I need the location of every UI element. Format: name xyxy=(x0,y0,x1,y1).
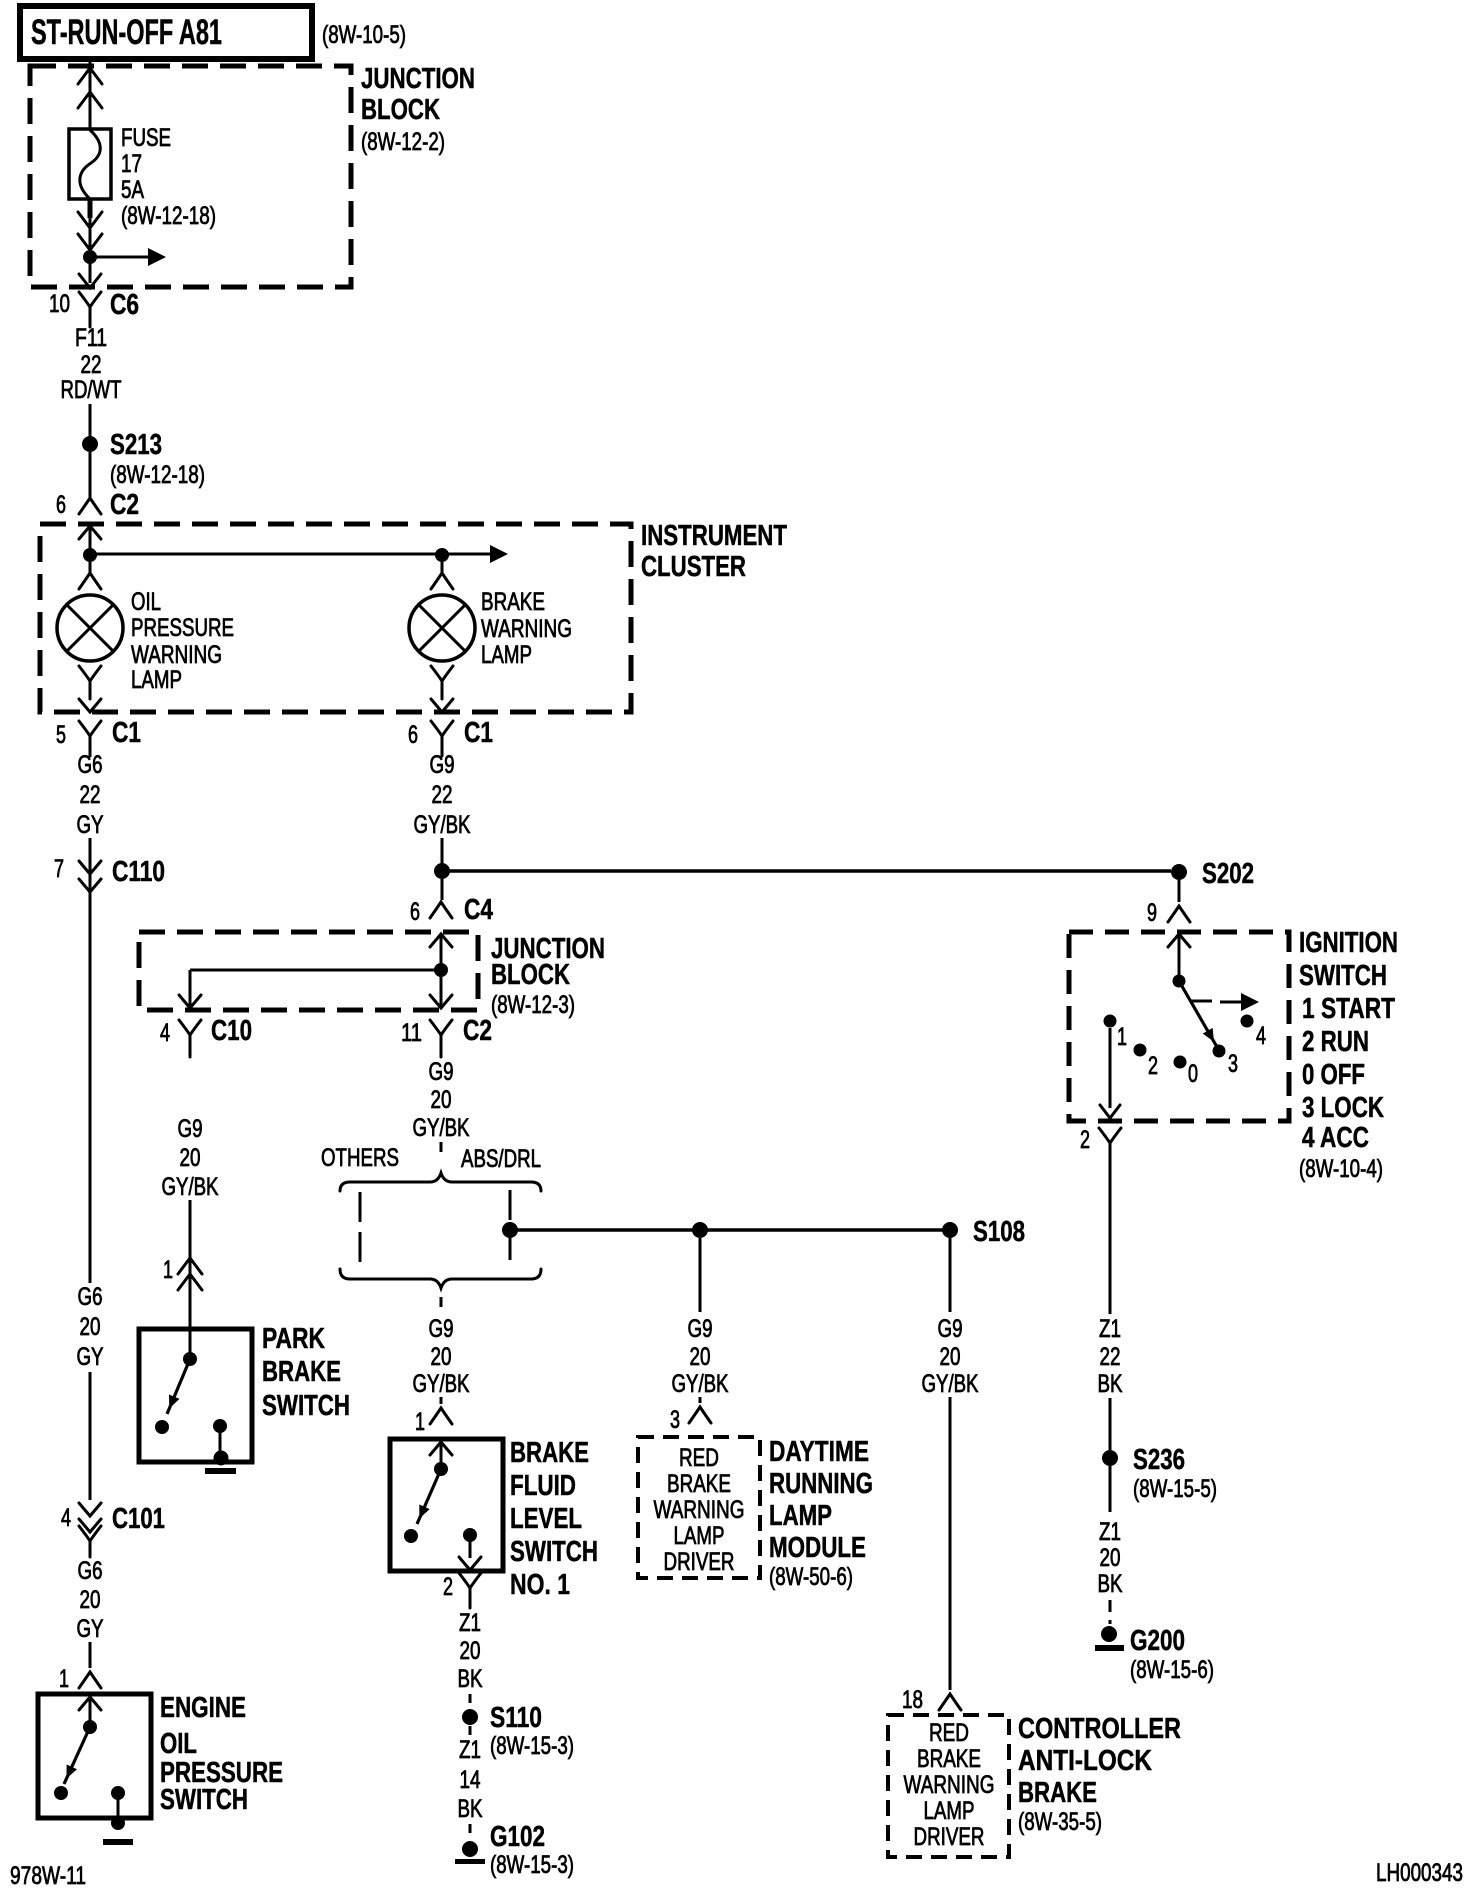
svg-text:S202: S202 xyxy=(1202,858,1254,890)
svg-text:BRAKE: BRAKE xyxy=(917,1745,981,1773)
wire label G9 20 GY/BK (ABS) xyxy=(922,1315,979,1398)
entry arrowhead xyxy=(430,1442,452,1466)
svg-text:C2: C2 xyxy=(463,1015,492,1047)
wire label G9 20 GY/BK (fluid) xyxy=(413,1315,470,1398)
label BRAKE WARNING LAMP xyxy=(481,588,572,669)
svg-text:7: 7 xyxy=(54,855,64,883)
svg-text:20: 20 xyxy=(80,1313,101,1341)
svg-text:20: 20 xyxy=(460,1637,481,1665)
wire label G9 20 GY/BK (DRL) xyxy=(672,1315,729,1398)
pin 6 xyxy=(408,721,418,749)
svg-text:BK: BK xyxy=(458,1795,483,1823)
ignition switch outline xyxy=(1069,932,1289,1121)
svg-text:4: 4 xyxy=(1256,1022,1266,1050)
connector into DRL module xyxy=(689,1407,711,1423)
svg-text:BRAKE: BRAKE xyxy=(262,1356,341,1388)
connector below switch xyxy=(459,1573,481,1608)
svg-text:5A: 5A xyxy=(121,176,144,204)
svg-text:(8W-15-3): (8W-15-3) xyxy=(490,1732,574,1760)
switch pivot xyxy=(183,1352,197,1366)
label BRAKE FLUID LEVEL SWITCH NO. 1 xyxy=(510,1437,598,1601)
lamp lower terminal xyxy=(79,666,101,699)
svg-text:BK: BK xyxy=(1098,1570,1123,1598)
contact 4 xyxy=(1241,1015,1267,1051)
svg-text:20: 20 xyxy=(690,1343,711,1371)
pin 11 xyxy=(401,1019,422,1047)
wire from A81 into junction block xyxy=(89,59,92,129)
svg-text:G9: G9 xyxy=(178,1115,203,1143)
svg-text:4: 4 xyxy=(61,1504,71,1532)
connector C4 xyxy=(430,894,493,926)
svg-text:4 ACC: 4 ACC xyxy=(1302,1122,1369,1154)
svg-text:2: 2 xyxy=(443,1573,453,1601)
svg-text:10: 10 xyxy=(49,290,70,318)
svg-text:PRESSURE: PRESSURE xyxy=(131,614,234,642)
svg-text:F11: F11 xyxy=(75,324,107,352)
switch lever xyxy=(417,1469,441,1524)
label DAYTIME RUNNING LAMP MODULE (8W-50-6) xyxy=(769,1436,873,1591)
svg-text:4: 4 xyxy=(160,1019,170,1047)
svg-text:C1: C1 xyxy=(464,717,493,749)
svg-text:18: 18 xyxy=(902,1686,923,1714)
label RED BRAKE WARNING LAMP DRIVER xyxy=(654,1444,745,1576)
pin 10 xyxy=(49,290,70,318)
svg-text:G9: G9 xyxy=(430,751,455,779)
lamp terminal (brake) xyxy=(431,560,453,589)
svg-text:FUSE: FUSE xyxy=(121,124,171,152)
connector into ABS controller xyxy=(939,1694,961,1710)
svg-text:ABS/DRL: ABS/DRL xyxy=(461,1145,541,1173)
wire stub to G200 xyxy=(1109,1600,1112,1624)
svg-text:G9: G9 xyxy=(688,1315,713,1343)
svg-text:BK: BK xyxy=(1098,1370,1123,1398)
rotation tick and arrow xyxy=(1191,993,1259,1011)
svg-text:OIL: OIL xyxy=(160,1728,197,1760)
exit arrowhead xyxy=(79,699,101,712)
pin 2 xyxy=(1080,1126,1090,1154)
svg-text:(8W-35-5): (8W-35-5) xyxy=(1018,1808,1102,1836)
svg-text:INSTRUMENT: INSTRUMENT xyxy=(641,520,787,552)
svg-text:GY/BK: GY/BK xyxy=(413,1370,470,1398)
bus wire across cluster with arrow xyxy=(90,545,508,563)
svg-text:DRIVER: DRIVER xyxy=(914,1823,985,1851)
label PARK BRAKE SWITCH xyxy=(262,1323,350,1422)
svg-text:S108: S108 xyxy=(973,1216,1025,1248)
label IGNITION SWITCH 1 START 2 RUN 0 OFF 3 LOCK 4 ACC (8W-10-4) xyxy=(1299,927,1398,1183)
connector into switch xyxy=(79,1672,101,1688)
wire label Z1 22 BK xyxy=(1098,1315,1123,1398)
junction dot xyxy=(434,863,450,879)
svg-text:GY: GY xyxy=(77,811,104,839)
svg-text:BLOCK: BLOCK xyxy=(361,94,440,126)
svg-text:978W-11: 978W-11 xyxy=(10,1862,86,1890)
svg-text:(8W-12-3): (8W-12-3) xyxy=(491,991,575,1019)
wire to S236 xyxy=(1109,1398,1112,1450)
svg-text:SWITCH: SWITCH xyxy=(1299,960,1387,992)
svg-text:WARNING: WARNING xyxy=(131,641,222,669)
connector below ignition switch xyxy=(1099,1128,1121,1163)
wire down to C4 xyxy=(441,879,444,900)
svg-text:RED: RED xyxy=(679,1444,719,1472)
switch wire xyxy=(189,1329,192,1355)
internal bus wire xyxy=(190,969,441,972)
DRL module outline xyxy=(638,1437,760,1578)
off-page double chevron up xyxy=(78,68,102,108)
wire to C101 xyxy=(89,1372,92,1500)
junction dot in block xyxy=(83,250,97,264)
svg-text:CONTROLLER: CONTROLLER xyxy=(1018,1713,1181,1745)
svg-text:1: 1 xyxy=(163,1256,173,1284)
svg-text:(8W-15-5): (8W-15-5) xyxy=(1133,1475,1217,1503)
wire to park brake switch xyxy=(189,1200,192,1329)
svg-text:LH000343: LH000343 xyxy=(1376,1859,1463,1887)
svg-text:LAMP: LAMP xyxy=(769,1500,832,1532)
connector C6 xyxy=(79,289,139,327)
fuse 17 5A xyxy=(69,129,111,199)
svg-text:(8W-15-3): (8W-15-3) xyxy=(490,1851,574,1879)
wire label G9 20 GY/BK (park) xyxy=(162,1115,219,1201)
svg-text:2: 2 xyxy=(1080,1126,1090,1154)
svg-text:0: 0 xyxy=(1188,1060,1198,1088)
svg-text:Z1: Z1 xyxy=(459,1736,481,1764)
junction dot (DRL tap) xyxy=(692,1222,708,1238)
svg-text:GY: GY xyxy=(77,1343,104,1371)
sheet number 978W-11 xyxy=(10,1862,86,1890)
svg-text:1: 1 xyxy=(59,1665,69,1693)
pin 1 xyxy=(59,1665,69,1693)
pin 4 xyxy=(61,1504,71,1532)
svg-text:RD/WT: RD/WT xyxy=(61,376,122,404)
svg-text:G9: G9 xyxy=(938,1315,963,1343)
svg-text:LAMP: LAMP xyxy=(924,1797,975,1825)
label CONTROLLER ANTI-LOCK BRAKE (8W-35-5) xyxy=(1018,1713,1181,1836)
svg-text:9: 9 xyxy=(1147,899,1157,927)
svg-text:22: 22 xyxy=(432,781,453,809)
wire S202 to ignition switch xyxy=(1178,880,1181,902)
bottom brace xyxy=(340,1269,541,1288)
pin 5 xyxy=(56,721,66,749)
pin 4 xyxy=(160,1019,170,1047)
svg-text:(8W-50-6): (8W-50-6) xyxy=(769,1563,853,1591)
label OIL PRESSURE WARNING LAMP xyxy=(131,588,234,694)
svg-text:20: 20 xyxy=(940,1343,961,1371)
wire stub xyxy=(469,1824,472,1840)
ABS controller outline xyxy=(888,1715,1009,1857)
ground G102 xyxy=(455,1821,574,1879)
arrowhead at block exit xyxy=(79,274,101,288)
wire branch down xyxy=(430,970,452,1008)
svg-text:1: 1 xyxy=(415,1408,425,1436)
svg-text:BRAKE: BRAKE xyxy=(510,1437,589,1469)
svg-text:G6: G6 xyxy=(78,1283,103,1311)
connector C2 into cluster xyxy=(79,489,139,521)
svg-text:6: 6 xyxy=(56,491,66,519)
bus wire to S108 xyxy=(510,1228,950,1232)
svg-text:(8W-10-5): (8W-10-5) xyxy=(322,21,406,49)
ground contact xyxy=(111,1786,125,1821)
connector C110 xyxy=(79,856,165,892)
oil pressure warning lamp xyxy=(57,595,123,661)
pin 1 xyxy=(163,1256,173,1284)
svg-text:2 RUN: 2 RUN xyxy=(1302,1026,1369,1058)
svg-text:(8W-15-6): (8W-15-6) xyxy=(1130,1656,1214,1684)
switch pivot xyxy=(83,1720,97,1734)
svg-text:3: 3 xyxy=(1228,1050,1238,1078)
svg-text:G9: G9 xyxy=(429,1058,454,1086)
svg-text:LAMP: LAMP xyxy=(674,1522,725,1550)
pin 3 xyxy=(670,1406,680,1434)
svg-text:(8W-10-4): (8W-10-4) xyxy=(1299,1155,1383,1183)
connector C1 (brake lamp) xyxy=(431,717,493,756)
svg-text:S236: S236 xyxy=(1133,1444,1185,1476)
svg-text:RUNNING: RUNNING xyxy=(769,1468,873,1500)
svg-text:JUNCTION: JUNCTION xyxy=(361,63,475,95)
junction dot right xyxy=(435,548,449,562)
svg-text:20: 20 xyxy=(1100,1544,1121,1572)
wire label Z1 20 BK xyxy=(458,1609,483,1693)
pin 7 xyxy=(54,855,64,883)
pin 1 xyxy=(415,1408,425,1436)
svg-text:GY: GY xyxy=(77,1615,104,1643)
label FUSE 17 5A (8W-12-18) xyxy=(121,124,216,230)
off-page double chevron up xyxy=(178,1258,202,1290)
contact 3 xyxy=(1213,1045,1239,1079)
svg-text:GY/BK: GY/BK xyxy=(414,811,471,839)
splice S213 xyxy=(82,429,205,489)
wire to engine oil pressure switch xyxy=(89,1642,92,1668)
junction block (8W-12-3) outline xyxy=(139,932,478,1010)
connector C2 xyxy=(430,1015,492,1057)
wire across to S202 xyxy=(442,869,1171,873)
label ENGINE OIL PRESSURE SWITCH xyxy=(160,1692,283,1816)
switch contact xyxy=(155,1420,169,1434)
connector into ignition switch xyxy=(1168,906,1190,922)
wire S213 to C2 xyxy=(89,452,92,498)
contact 0 xyxy=(1174,1056,1199,1089)
svg-text:S110: S110 xyxy=(490,1702,542,1734)
wire label G6 20 GY (lower) xyxy=(77,1557,104,1643)
contact 2 xyxy=(1134,1044,1159,1081)
exit arrowhead xyxy=(431,699,453,712)
svg-text:OTHERS: OTHERS xyxy=(321,1144,399,1172)
ABS/DRL branch dashed xyxy=(509,1190,512,1268)
svg-text:BRAKE: BRAKE xyxy=(481,588,545,616)
switch lever xyxy=(64,1727,90,1784)
entry arrowhead xyxy=(1168,934,1190,976)
svg-text:ST-RUN-OFF A81: ST-RUN-OFF A81 xyxy=(31,13,222,52)
wire C110 down left side xyxy=(89,900,92,1283)
svg-text:(8W-12-18): (8W-12-18) xyxy=(121,202,216,230)
splice S110 xyxy=(462,1702,574,1760)
pin 6 xyxy=(56,491,66,519)
svg-text:ENGINE: ENGINE xyxy=(160,1692,246,1724)
svg-text:0 OFF: 0 OFF xyxy=(1302,1059,1365,1091)
svg-text:BRAKE: BRAKE xyxy=(667,1470,731,1498)
svg-text:DRIVER: DRIVER xyxy=(664,1548,735,1576)
svg-text:22: 22 xyxy=(80,781,101,809)
switch contact xyxy=(54,1786,68,1800)
wire stub xyxy=(469,1726,472,1738)
svg-text:GY/BK: GY/BK xyxy=(162,1173,219,1201)
svg-text:CLUSTER: CLUSTER xyxy=(641,551,746,583)
svg-text:(8W-12-2): (8W-12-2) xyxy=(361,128,445,156)
switch lever xyxy=(167,1359,190,1414)
svg-text:LAMP: LAMP xyxy=(481,641,532,669)
svg-text:GY/BK: GY/BK xyxy=(922,1370,979,1398)
svg-text:S213: S213 xyxy=(110,429,162,461)
switch pivot xyxy=(434,1462,448,1476)
wire from DRL tap xyxy=(699,1238,702,1312)
wire fuse to splice xyxy=(88,199,93,283)
svg-text:NO. 1: NO. 1 xyxy=(510,1569,570,1601)
svg-text:WARNING: WARNING xyxy=(481,615,572,643)
lamp lower terminal xyxy=(431,666,453,699)
svg-text:C110: C110 xyxy=(112,856,165,888)
svg-text:GY/BK: GY/BK xyxy=(672,1370,729,1398)
junction block (8W-12-2) outline xyxy=(30,66,351,287)
drawing id LH000343 xyxy=(1376,1859,1463,1887)
svg-text:G6: G6 xyxy=(78,751,103,779)
park brake switch box xyxy=(139,1329,252,1462)
pin 2 xyxy=(443,1573,453,1601)
connector C10 xyxy=(179,1015,252,1057)
wire label G6 20 GY xyxy=(77,1283,104,1371)
label JUNCTION BLOCK (8W-12-3) xyxy=(491,933,605,1019)
junction dot xyxy=(502,1222,518,1238)
svg-text:DAYTIME: DAYTIME xyxy=(769,1436,869,1468)
rotor pivot xyxy=(1173,975,1186,988)
svg-text:22: 22 xyxy=(1100,1343,1121,1371)
connector C1 (oil lamp) xyxy=(79,717,141,756)
svg-text:OIL: OIL xyxy=(131,588,161,616)
rotor lever to LOCK xyxy=(1179,981,1217,1047)
svg-text:20: 20 xyxy=(180,1144,201,1172)
label ABS/DRL xyxy=(461,1145,541,1173)
ground G200 xyxy=(1095,1625,1214,1684)
svg-text:20: 20 xyxy=(431,1086,452,1114)
svg-text:(8W-12-18): (8W-12-18) xyxy=(110,461,205,489)
svg-text:C2: C2 xyxy=(110,489,139,521)
ground contact xyxy=(213,1419,227,1456)
label JUNCTION BLOCK (8W-12-2) xyxy=(361,63,475,156)
svg-text:22: 22 xyxy=(81,351,102,379)
wire to splice row xyxy=(441,838,444,868)
svg-text:6: 6 xyxy=(408,721,418,749)
wire stub below brace xyxy=(440,1297,443,1313)
svg-text:LEVEL: LEVEL xyxy=(510,1503,582,1535)
output contact xyxy=(459,1528,481,1570)
wire stub below C2 xyxy=(440,1142,443,1158)
wire into cluster xyxy=(89,526,92,555)
connector C101 xyxy=(79,1503,165,1557)
svg-text:GY/BK: GY/BK xyxy=(413,1114,470,1142)
connector into switch xyxy=(430,1408,452,1424)
svg-text:11: 11 xyxy=(401,1019,422,1047)
arrow to other circuits xyxy=(90,248,166,266)
svg-text:Z1: Z1 xyxy=(1099,1518,1121,1546)
wire branch left xyxy=(179,970,201,1008)
wire label F11 22 RD/WT xyxy=(61,324,122,404)
pin 6 xyxy=(410,898,420,926)
svg-text:17: 17 xyxy=(121,150,142,178)
svg-text:Z1: Z1 xyxy=(1099,1315,1121,1343)
wire to internal junction xyxy=(440,934,443,970)
svg-text:BLOCK: BLOCK xyxy=(491,959,570,991)
svg-text:RED: RED xyxy=(929,1719,969,1747)
svg-text:BK: BK xyxy=(458,1665,483,1693)
svg-text:C4: C4 xyxy=(464,894,493,926)
wire to ABS controller xyxy=(949,1397,952,1690)
wire down xyxy=(1109,1163,1112,1314)
svg-text:SWITCH: SWITCH xyxy=(160,1784,248,1816)
svg-text:C1: C1 xyxy=(112,717,141,749)
svg-text:C6: C6 xyxy=(110,289,139,321)
svg-text:PARK: PARK xyxy=(262,1323,325,1355)
svg-text:C10: C10 xyxy=(211,1015,252,1047)
instrument cluster outline xyxy=(40,524,631,712)
svg-text:G9: G9 xyxy=(429,1315,454,1343)
svg-text:6: 6 xyxy=(410,898,420,926)
ground xyxy=(205,1451,236,1475)
svg-text:BRAKE: BRAKE xyxy=(1018,1777,1097,1809)
svg-text:1 START: 1 START xyxy=(1302,993,1395,1025)
wire stub xyxy=(469,1694,472,1708)
label OTHERS xyxy=(321,1144,399,1172)
wire label Z1 20 BK xyxy=(1098,1518,1123,1598)
svg-text:20: 20 xyxy=(431,1343,452,1371)
splice S202 xyxy=(1171,858,1254,890)
svg-text:C101: C101 xyxy=(112,1503,165,1535)
label INSTRUMENT CLUSTER xyxy=(641,520,787,583)
svg-text:Z1: Z1 xyxy=(459,1609,481,1637)
reference (8W-10-5) xyxy=(322,21,406,49)
svg-text:14: 14 xyxy=(460,1766,481,1794)
OTHERS branch dashed xyxy=(359,1192,362,1268)
brake fluid level switch box xyxy=(390,1439,503,1571)
svg-text:SWITCH: SWITCH xyxy=(510,1536,598,1568)
pin 9 xyxy=(1147,899,1157,927)
wire label G6 22 GY xyxy=(77,751,104,839)
svg-text:G200: G200 xyxy=(1130,1625,1185,1657)
svg-text:MODULE: MODULE xyxy=(769,1532,866,1564)
entry arrowhead xyxy=(430,934,452,947)
lamp terminal (oil) xyxy=(79,560,101,589)
svg-text:IGNITION: IGNITION xyxy=(1299,927,1398,959)
wire RD/WT down to S213 xyxy=(89,404,92,440)
svg-text:1: 1 xyxy=(1117,1023,1127,1051)
splice S236 xyxy=(1102,1444,1217,1503)
switch contact xyxy=(404,1529,418,1543)
node ST-RUN-OFF A81 feed box xyxy=(20,6,312,59)
svg-text:FLUID: FLUID xyxy=(510,1470,576,1502)
wire label G9 22 GY/BK xyxy=(414,751,471,839)
entry arrowhead xyxy=(79,526,101,539)
svg-text:WARNING: WARNING xyxy=(654,1496,745,1524)
pin 18 xyxy=(902,1686,923,1714)
svg-text:2: 2 xyxy=(1148,1052,1158,1080)
svg-text:SWITCH: SWITCH xyxy=(262,1390,350,1422)
svg-text:G102: G102 xyxy=(490,1821,545,1853)
top brace xyxy=(340,1173,541,1191)
contact 1 xyxy=(1104,1015,1128,1052)
label RED BRAKE WARNING LAMP DRIVER xyxy=(904,1719,995,1851)
wire label Z1 14 BK xyxy=(458,1736,483,1823)
brake warning lamp xyxy=(409,595,475,661)
splice S108 xyxy=(942,1216,1025,1248)
svg-text:3: 3 xyxy=(670,1406,680,1434)
svg-text:ANTI-LOCK: ANTI-LOCK xyxy=(1018,1745,1152,1777)
svg-text:WARNING: WARNING xyxy=(904,1771,995,1799)
